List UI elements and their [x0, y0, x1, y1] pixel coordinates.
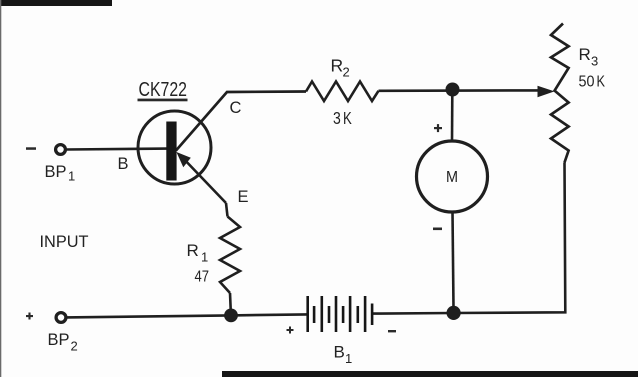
wire: right vertical from R3 bottom to bottom wire	[454, 163, 566, 314]
battery short plate 1	[313, 306, 316, 323]
resistor R2 zigzag	[306, 82, 379, 102]
battery short plate 4	[357, 306, 360, 323]
label - (minus) at BP1	[26, 147, 36, 150]
battery long plate 5	[364, 296, 367, 332]
svg-text:INPUT: INPUT	[40, 233, 89, 251]
transistor Q1 CK722: emitter diagonal	[181, 156, 226, 203]
battery short plate 3	[342, 306, 345, 323]
label - (battery)	[388, 330, 396, 332]
potentiometer R3 zigzag	[551, 24, 569, 163]
svg-text:R: R	[187, 241, 199, 260]
transistor Q1 CK722: collector diagonal	[176, 92, 306, 151]
svg-text:47: 47	[195, 269, 210, 286]
label - (meter)	[433, 228, 442, 231]
svg-text:BP: BP	[48, 330, 70, 349]
transistor Q1 CK722: emitter arrowhead	[176, 152, 190, 167]
wiper arrowhead into R3	[538, 86, 555, 98]
svg-text:1: 1	[68, 169, 75, 184]
underline of CK722	[138, 99, 188, 102]
svg-text:K: K	[597, 74, 606, 91]
junction node at top (collector / meter / wiper)	[446, 83, 460, 97]
battery short plate 2	[328, 306, 331, 323]
svg-text:2: 2	[343, 65, 350, 80]
label + (meter)	[434, 127, 442, 129]
battery short plate 5	[371, 304, 374, 326]
svg-text:B: B	[334, 343, 345, 362]
wire: base lead from BP1 to transistor	[66, 147, 168, 150]
svg-text:1: 1	[345, 351, 352, 366]
svg-text:3: 3	[591, 54, 598, 69]
svg-text:K: K	[343, 108, 352, 128]
svg-text:R: R	[331, 56, 344, 76]
battery long plate 4	[349, 296, 352, 332]
scan artifact: top-left black bar	[0, 0, 112, 6]
junction node at meter bottom	[447, 306, 461, 320]
battery long plate 2	[321, 296, 324, 332]
terminal BP2	[56, 313, 66, 323]
wire: bottom wire BP2 to battery	[66, 314, 307, 317]
scan artifact: left edge line	[0, 0, 1, 377]
svg-text:3: 3	[333, 108, 341, 128]
wire: top wire from R2 to R3 wiper	[379, 89, 541, 92]
battery long plate 3	[335, 296, 338, 332]
wire: R1 bottom lead	[229, 293, 232, 312]
svg-text:CK722: CK722	[139, 79, 188, 101]
svg-text:BP: BP	[45, 162, 67, 181]
meter M circle	[417, 141, 488, 212]
transistor Q1 CK722: base bar	[166, 122, 176, 181]
label + (battery)	[287, 329, 294, 331]
svg-text:R: R	[579, 45, 591, 64]
wire: battery to right junction	[373, 312, 454, 315]
wire: meter top lead	[451, 94, 454, 142]
label + (BP2)	[26, 315, 33, 317]
svg-text:1: 1	[201, 250, 208, 265]
junction node at R1 bottom	[224, 309, 238, 323]
svg-text:B: B	[118, 155, 129, 173]
svg-text:E: E	[238, 188, 249, 206]
svg-text:50: 50	[579, 74, 595, 91]
transistor Q1 CK722: circle	[138, 111, 211, 184]
battery B1 plates: long plate 1	[306, 296, 309, 332]
svg-text:2: 2	[71, 339, 78, 354]
svg-text:C: C	[230, 99, 242, 117]
terminal BP1	[56, 145, 66, 155]
svg-text:M: M	[446, 169, 458, 186]
scan artifact: bottom black bar	[222, 371, 638, 377]
wire: emitter corner down to R1	[226, 203, 228, 217]
wire: meter bottom lead	[453, 212, 454, 308]
resistor R1 zigzag	[220, 217, 240, 294]
